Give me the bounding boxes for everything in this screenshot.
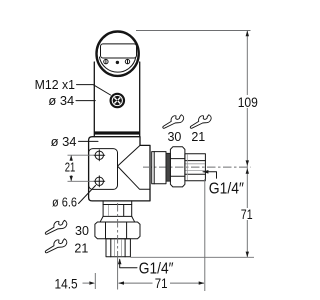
label dia 34 upper xyxy=(48,93,95,108)
svg-text:ø 34: ø 34 xyxy=(48,93,74,108)
bottom center line xyxy=(117,203,119,257)
label M12x1 xyxy=(35,77,111,95)
side hex nut 30 xyxy=(170,147,185,187)
button left xyxy=(104,59,108,63)
svg-text:21: 21 xyxy=(191,130,205,144)
wrench icon 21 bottom xyxy=(43,236,68,255)
wrench icon 30 side xyxy=(160,112,185,131)
svg-text:ø 6.6: ø 6.6 xyxy=(52,194,77,209)
button center dot xyxy=(116,61,119,64)
side port ring xyxy=(166,153,170,181)
bottom thread stud G1/4 xyxy=(106,239,130,257)
label G1/4 bottom xyxy=(118,259,174,278)
side port center line xyxy=(143,166,251,168)
M12 connector xyxy=(111,94,124,107)
extension line top of head xyxy=(136,30,251,32)
wrench icon 30 bottom xyxy=(43,218,68,237)
display head circle xyxy=(97,32,139,76)
body tube xyxy=(94,62,139,137)
label dia 6.6 xyxy=(52,186,96,210)
label dia 34 lower xyxy=(51,134,98,149)
bottom tip extension line xyxy=(131,256,255,258)
svg-text:G1/4″: G1/4″ xyxy=(209,181,245,198)
svg-text:71: 71 xyxy=(241,206,253,222)
svg-text:21: 21 xyxy=(65,161,76,175)
seam band xyxy=(94,131,140,134)
svg-text:30: 30 xyxy=(167,130,181,144)
side thread stud G1/4 xyxy=(185,154,206,181)
display window xyxy=(101,44,137,58)
svg-text:30: 30 xyxy=(75,224,89,238)
label G1/4 side xyxy=(203,170,245,198)
screw top xyxy=(94,150,105,161)
button right xyxy=(125,59,129,63)
side port flange xyxy=(152,152,166,184)
svg-text:21: 21 xyxy=(74,241,88,255)
svg-text:14.5: 14.5 xyxy=(55,275,78,291)
bottom neck xyxy=(100,201,134,222)
dimension 21 xyxy=(65,155,94,181)
screw bottom xyxy=(94,176,105,187)
svg-text:71: 71 xyxy=(155,275,168,291)
dimension 71 bottom xyxy=(118,275,204,291)
dimension 71 vertical xyxy=(240,167,255,257)
dimension 14.5 xyxy=(55,273,96,291)
svg-text:109: 109 xyxy=(238,94,258,110)
wrench icon 21 side xyxy=(188,112,213,131)
bottom hex nut 30 xyxy=(95,222,140,239)
right extension line xyxy=(204,179,206,291)
mounting plate xyxy=(89,149,118,190)
block elbow triangle xyxy=(118,145,151,189)
svg-text:M12 x1: M12 x1 xyxy=(35,77,75,92)
process block outline xyxy=(89,137,150,201)
svg-text:ø 34: ø 34 xyxy=(51,134,77,149)
dimension 109 xyxy=(236,31,259,168)
display head inner rim arc xyxy=(99,57,135,72)
